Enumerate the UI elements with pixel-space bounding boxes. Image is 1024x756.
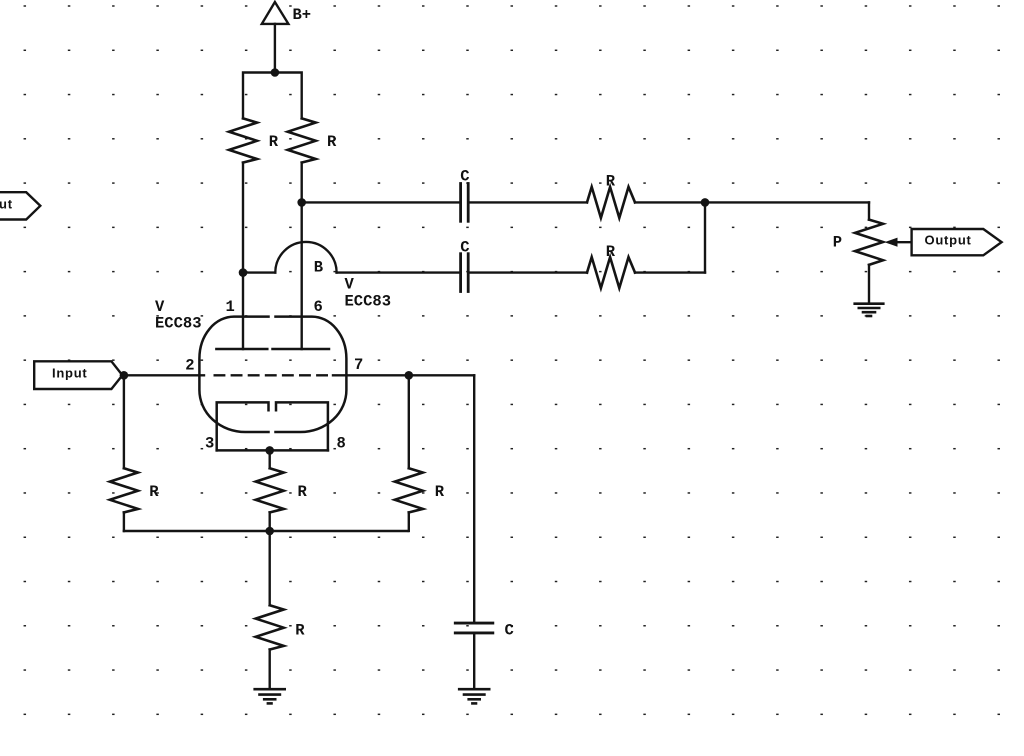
- svg-text:R: R: [149, 483, 159, 501]
- svg-text:C: C: [505, 622, 514, 640]
- svg-text:8: 8: [337, 435, 346, 453]
- svg-text:1: 1: [226, 298, 235, 316]
- svg-text:6: 6: [314, 298, 323, 316]
- svg-text:R: R: [295, 622, 305, 640]
- svg-text:B: B: [314, 258, 323, 276]
- svg-text:B+: B+: [293, 6, 312, 24]
- svg-text:V: V: [345, 276, 355, 294]
- svg-text:C: C: [460, 168, 469, 186]
- svg-text:R: R: [298, 483, 308, 501]
- svg-text:ECC83: ECC83: [155, 314, 202, 332]
- svg-text:2: 2: [185, 357, 194, 375]
- svg-text:Output: Output: [925, 232, 972, 247]
- svg-text:R: R: [606, 173, 616, 191]
- svg-text:ut: ut: [0, 196, 13, 211]
- svg-text:Input: Input: [52, 366, 88, 381]
- svg-text:3: 3: [205, 435, 214, 453]
- svg-text:R: R: [435, 483, 445, 501]
- svg-text:ECC83: ECC83: [345, 292, 392, 310]
- svg-text:7: 7: [354, 356, 363, 374]
- svg-text:R: R: [327, 133, 337, 151]
- svg-text:R: R: [606, 243, 616, 261]
- svg-text:R: R: [269, 133, 279, 151]
- svg-text:V: V: [155, 298, 165, 316]
- svg-text:P: P: [833, 234, 842, 252]
- svg-text:C: C: [460, 239, 469, 257]
